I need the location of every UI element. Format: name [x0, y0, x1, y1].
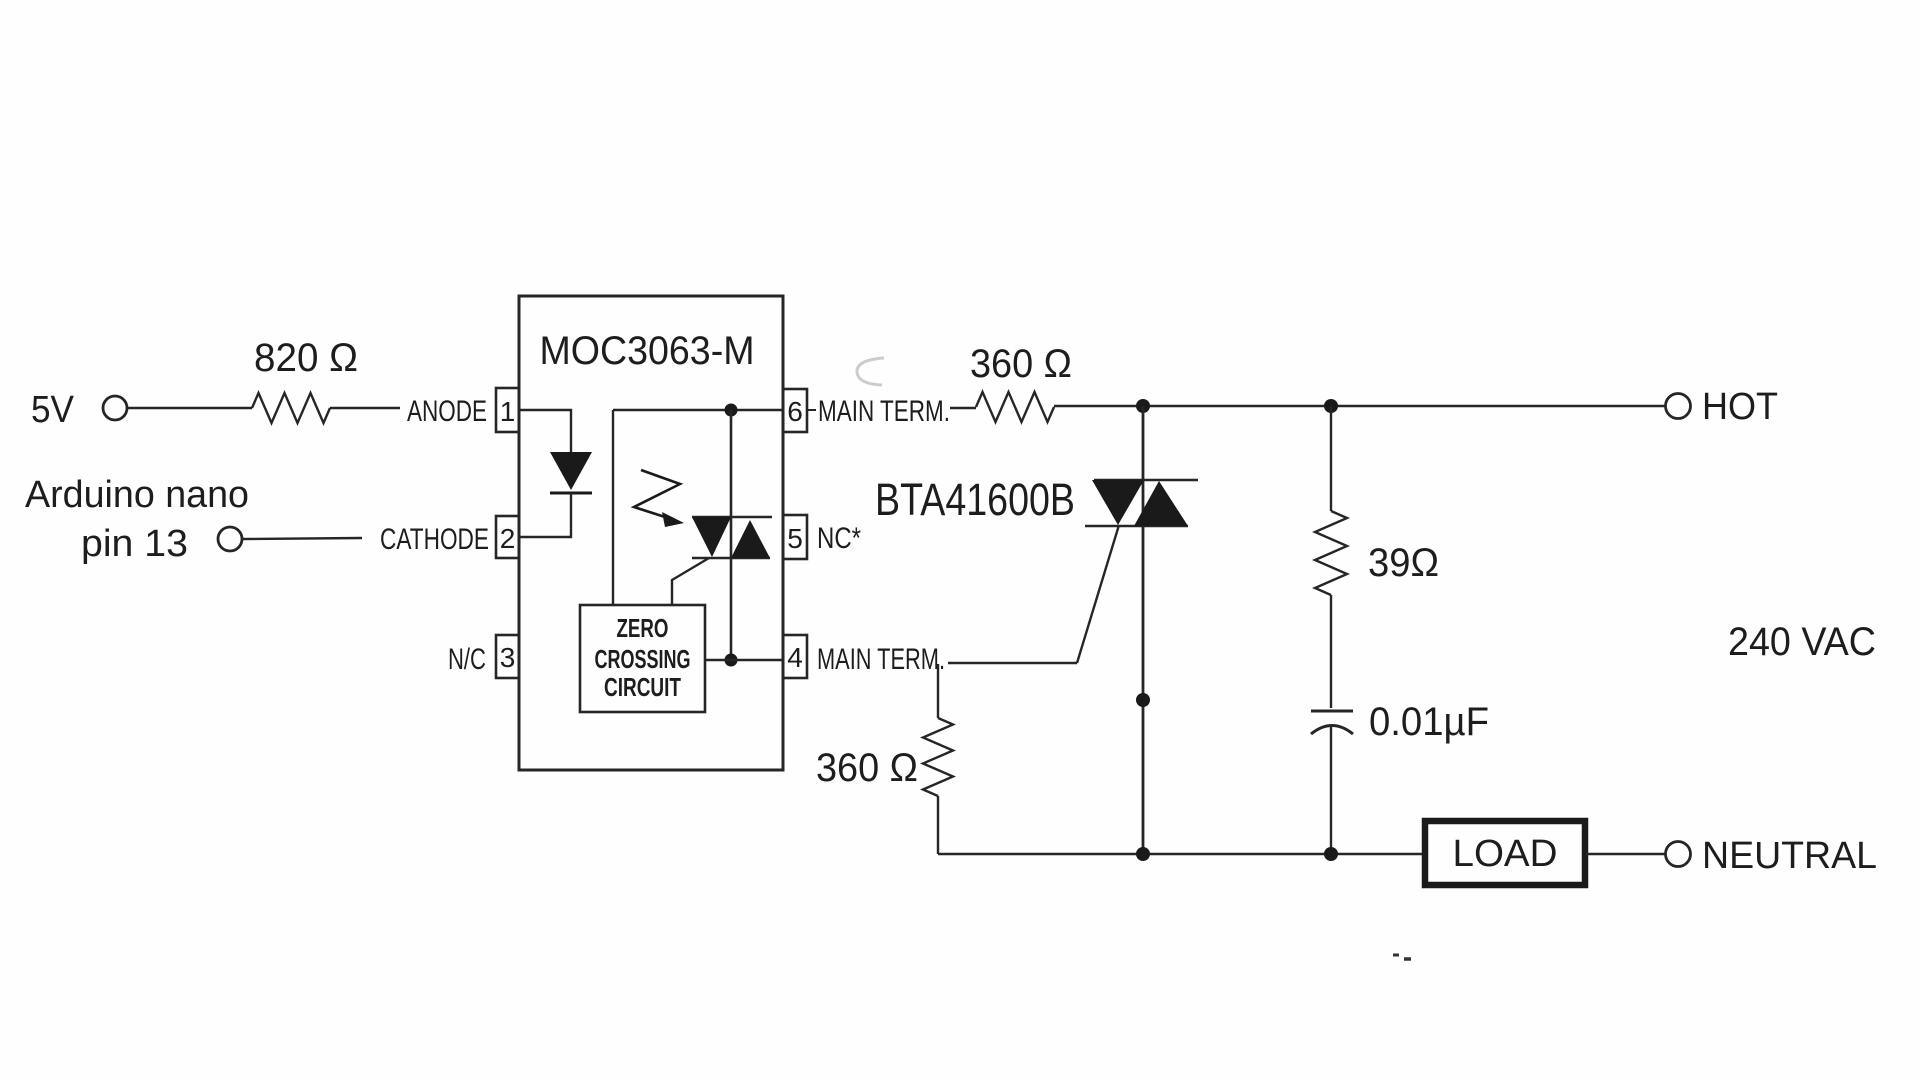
- node junction top rail snubber: [1324, 399, 1338, 413]
- pin 1 box: [496, 388, 519, 432]
- pin 4 box: [783, 635, 807, 678]
- svg-text:N/C: N/C: [448, 643, 486, 676]
- svg-text:0.01µF: 0.01µF: [1369, 700, 1489, 744]
- svg-text:CATHODE: CATHODE: [380, 523, 489, 556]
- wire R3 to bottom rail: [937, 796, 939, 854]
- wire inner top rail to pin 6: [613, 409, 783, 411]
- svg-text:5V: 5V: [31, 389, 75, 431]
- svg-text:CIRCUIT: CIRCUIT: [604, 672, 681, 702]
- terminal HOT: [1666, 394, 1691, 419]
- resistor R2 360Ω top: [976, 392, 1054, 422]
- wire top rail to HOT: [1054, 405, 1666, 407]
- svg-text:MAIN TERM.: MAIN TERM.: [818, 395, 950, 428]
- resistor R4 39Ω snubber: [1315, 406, 1347, 708]
- wire triac gate: [1077, 525, 1119, 663]
- wire photo-triac vertical: [730, 410, 733, 660]
- pin 5 box: [783, 515, 807, 559]
- svg-text:NC*: NC*: [817, 522, 861, 555]
- svg-text:BTA41600B: BTA41600B: [875, 474, 1075, 525]
- light arrow: [634, 470, 684, 527]
- wire bottom rail: [938, 853, 1424, 855]
- svg-text:39Ω: 39Ω: [1368, 541, 1439, 585]
- svg-text:CROSSING: CROSSING: [595, 644, 691, 674]
- node junction on pin4 wire: [725, 654, 738, 667]
- wire LED cathode to pin2: [519, 493, 571, 537]
- node junction on top rail: [725, 404, 738, 417]
- optocoupler U1 MOC3063-M outer box: [519, 296, 783, 770]
- svg-text:360 Ω: 360 Ω: [970, 342, 1072, 386]
- resistor R3 360Ω vertical: [923, 718, 953, 796]
- label Arduino nano pin 13: [25, 474, 249, 565]
- wire inner left vertical: [612, 410, 614, 605]
- load box: [1425, 821, 1585, 885]
- terminal 5V: [103, 396, 127, 420]
- svg-text:3: 3: [500, 642, 516, 673]
- photo-triac inside MOC: [692, 517, 772, 558]
- svg-text:820 Ω: 820 Ω: [254, 336, 358, 380]
- pin 3 box: [496, 635, 519, 678]
- wire photo-triac gate to ZCC: [672, 558, 709, 605]
- svg-text:5: 5: [787, 523, 803, 554]
- resistor R1 820Ω: [252, 393, 330, 423]
- label ZERO CROSSING CIRCUIT: [595, 613, 691, 702]
- zero crossing circuit box: [580, 605, 705, 712]
- artifact dots: [1393, 955, 1411, 959]
- triac Q1 BTA41600B: [1085, 406, 1198, 854]
- svg-text:2: 2: [500, 523, 516, 554]
- wire 5V to R1: [127, 407, 252, 409]
- LED D1 inside MOC: [550, 452, 592, 493]
- svg-text:240 VAC: 240 VAC: [1728, 620, 1876, 664]
- svg-text:6: 6: [787, 396, 803, 427]
- svg-text:MAIN TERM.: MAIN TERM.: [817, 643, 945, 676]
- capacitor C1 0.01uF: [1311, 711, 1353, 854]
- wire pin1 to LED anode: [519, 410, 571, 452]
- svg-text:pin 13: pin 13: [81, 523, 188, 565]
- terminal pin 13: [218, 527, 242, 551]
- svg-text:4: 4: [787, 642, 803, 673]
- wire pin13 to CATHODE: [242, 538, 362, 539]
- node junction bottom rail triac: [1136, 847, 1150, 861]
- artifact faint arc: [857, 358, 884, 385]
- wire pin4 to gate: [948, 662, 1077, 664]
- node junction top rail triac: [1136, 399, 1150, 413]
- pin 6 stub: [807, 409, 816, 411]
- svg-text:360 Ω: 360 Ω: [816, 746, 918, 790]
- wire pin4 node down: [937, 664, 939, 718]
- pin 2 box: [496, 516, 519, 558]
- svg-text:Arduino nano: Arduino nano: [25, 474, 249, 516]
- wire R1 to ANODE: [330, 407, 400, 409]
- wire ZCC to pin 4: [705, 659, 783, 661]
- svg-text:MOC3063-M: MOC3063-M: [540, 329, 755, 373]
- node junction triac vertical dot: [1136, 693, 1150, 707]
- svg-text:1: 1: [500, 396, 516, 427]
- svg-text:ZERO: ZERO: [617, 613, 669, 643]
- svg-text:HOT: HOT: [1702, 386, 1778, 428]
- wire load to NEUTRAL: [1586, 853, 1666, 855]
- pin 6 box: [783, 389, 807, 432]
- svg-text:ANODE: ANODE: [407, 395, 487, 428]
- svg-text:LOAD: LOAD: [1453, 833, 1558, 875]
- svg-text:NEUTRAL: NEUTRAL: [1702, 835, 1877, 877]
- terminal NEUTRAL: [1666, 842, 1691, 867]
- node junction bottom rail snubber: [1324, 847, 1338, 861]
- wire pin6 label to R2: [950, 407, 976, 409]
